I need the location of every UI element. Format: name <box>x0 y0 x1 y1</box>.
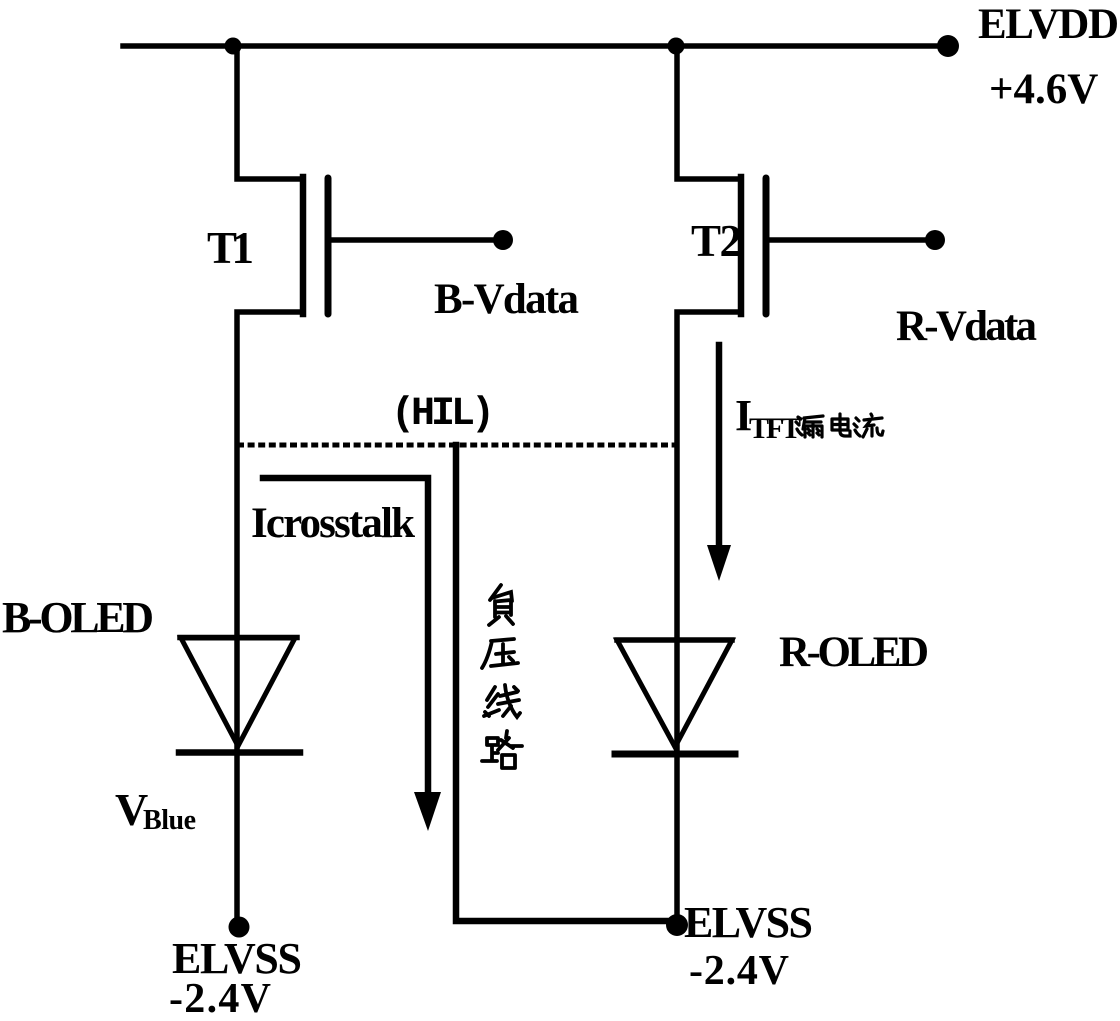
label T1 <box>207 223 254 273</box>
label ELVDD <box>978 1 1119 48</box>
label R-Vdata <box>896 303 1037 350</box>
label B-OLED <box>2 593 154 642</box>
wire T2 drain from rail <box>677 46 741 179</box>
svg-text:Blue: Blue <box>143 805 196 836</box>
hanzi 漏 <box>796 416 823 437</box>
diode B-OLED <box>179 638 300 753</box>
svg-text:B-OLED: B-OLED <box>2 593 154 642</box>
transistor T1 gate bar <box>325 178 332 314</box>
label (HIL) <box>391 392 491 437</box>
label ITFT leakage: I <box>735 391 801 445</box>
wire T2 source to R-OLED <box>677 312 741 925</box>
wire T1 gate lead <box>331 237 502 243</box>
hanzi 流 <box>854 414 883 437</box>
arrow ITFT leakage current <box>716 345 723 547</box>
label R-OLED <box>779 629 929 676</box>
node ELVSS left dot <box>229 917 250 938</box>
label Icrosstalk <box>251 500 415 547</box>
svg-text:R-OLED: R-OLED <box>779 629 929 676</box>
wire Icrosstalk path <box>263 478 428 793</box>
node ELVDD terminal dot <box>937 35 959 57</box>
node B-Vdata terminal dot <box>493 230 513 250</box>
arrowhead Icrosstalk <box>414 792 441 831</box>
hanzi 压 <box>482 639 518 668</box>
label negative voltage trace hanzi 负压线路 <box>482 585 522 768</box>
wire ELVDD rail <box>123 43 949 49</box>
label T2 <box>691 216 742 266</box>
node junction dot right rail <box>668 38 685 55</box>
transistor T1 channel bar <box>300 177 307 314</box>
hanzi 电 <box>832 414 850 436</box>
node ELVSS right dot <box>666 914 688 936</box>
wire negative-voltage trace vertical and bottom <box>456 445 675 921</box>
transistor T2 channel bar <box>738 177 745 314</box>
hanzi 路 <box>482 731 522 768</box>
svg-text:ELVSS: ELVSS <box>684 898 813 947</box>
node R-Vdata terminal dot <box>925 230 945 250</box>
hanzi 线 <box>484 685 520 717</box>
svg-text:T2: T2 <box>691 216 742 266</box>
label -2.4V right <box>689 948 789 994</box>
svg-text:T1: T1 <box>207 223 254 273</box>
svg-text:+4.6V: +4.6V <box>989 66 1098 113</box>
wire T2 gate lead <box>769 237 934 243</box>
label -2.4V left <box>169 976 271 1021</box>
transistor T2 gate bar <box>763 178 770 314</box>
svg-text:ELVDD: ELVDD <box>978 1 1119 48</box>
wire T1 drain from rail <box>237 46 303 179</box>
hanzi 负 <box>489 585 513 625</box>
svg-text:TFT: TFT <box>749 412 801 445</box>
svg-text:(HIL): (HIL) <box>391 392 491 437</box>
wire HIL dashed line <box>237 443 676 448</box>
label B-Vdata <box>434 276 579 323</box>
label +4.6V <box>989 66 1098 113</box>
arrowhead ITFT <box>707 545 731 581</box>
node junction dot left rail <box>225 38 242 55</box>
label V Blue <box>115 784 196 836</box>
svg-text:B-Vdata: B-Vdata <box>434 276 579 323</box>
svg-text:R-Vdata: R-Vdata <box>896 303 1037 350</box>
svg-text:Icrosstalk: Icrosstalk <box>251 500 415 547</box>
svg-text:-2.4V: -2.4V <box>689 948 789 994</box>
label ELVSS left <box>172 934 302 983</box>
label leakage current hanzi 漏电流 <box>796 414 883 437</box>
label ELVSS right <box>684 898 813 947</box>
svg-text:-2.4V: -2.4V <box>169 976 271 1021</box>
wire T1 source to B-OLED <box>237 312 303 927</box>
diode R-OLED <box>615 640 735 754</box>
